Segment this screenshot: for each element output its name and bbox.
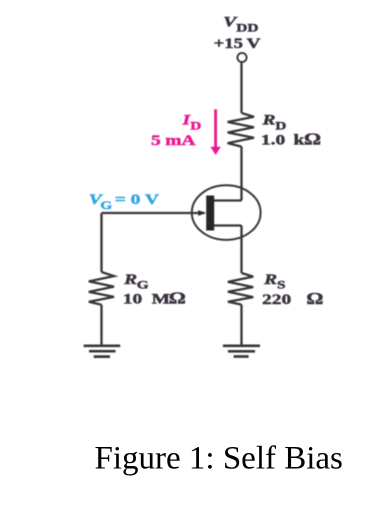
svg-text:D: D — [190, 119, 201, 132]
svg-text:Ω: Ω — [169, 290, 186, 308]
svg-text:+15: +15 — [214, 35, 243, 52]
svg-text:D: D — [275, 119, 286, 132]
svg-text:mA: mA — [165, 132, 196, 148]
svg-text:M: M — [152, 291, 170, 307]
svg-text:V: V — [247, 35, 262, 51]
svg-text:Ω: Ω — [304, 131, 321, 149]
svg-text:R: R — [261, 112, 275, 128]
svg-text:1.0: 1.0 — [261, 132, 286, 148]
svg-text:R: R — [123, 271, 137, 287]
svg-text:5: 5 — [151, 132, 161, 148]
svg-text:= 0 V: = 0 V — [115, 191, 160, 207]
svg-text:S: S — [277, 278, 286, 291]
svg-text:Ω: Ω — [306, 290, 323, 308]
svg-text:R: R — [263, 271, 277, 287]
svg-text:DD: DD — [236, 21, 258, 34]
svg-text:G: G — [100, 198, 112, 211]
svg-text:Figure 1: Self Bias: Figure 1: Self Bias — [95, 441, 343, 477]
svg-text:10: 10 — [123, 291, 143, 307]
svg-text:G: G — [137, 278, 149, 291]
svg-text:220: 220 — [262, 291, 292, 307]
